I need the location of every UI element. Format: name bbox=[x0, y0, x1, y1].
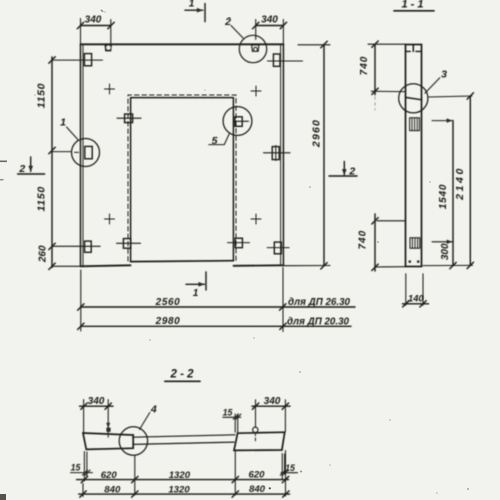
section mark 1 bottom bbox=[205, 272, 207, 290]
detail circle 5 bbox=[223, 107, 252, 136]
svg-text:для ДП 20.30: для ДП 20.30 bbox=[287, 316, 350, 327]
bottom row 2 dimension line 840/1320/840 bbox=[79, 493, 290, 495]
svg-text:для ДП 26.30: для ДП 26.30 bbox=[288, 297, 351, 308]
cross mark top-left bbox=[105, 84, 115, 94]
left dimension chain 1150/1150/260 bbox=[51, 57, 53, 268]
svg-text:1: 1 bbox=[60, 117, 66, 129]
bottom dimension 2980 with note line bbox=[81, 325, 351, 327]
svg-text:1: 1 bbox=[189, 0, 195, 10]
svg-text:1150: 1150 bbox=[36, 83, 48, 108]
weld plate P2 left middle (in detail 1) bbox=[85, 146, 92, 158]
svg-text:2980: 2980 bbox=[155, 316, 181, 327]
panel bottom edge left jamb bbox=[81, 265, 131, 266]
lifting loop left (elevation): dark recess with hole bbox=[105, 45, 112, 52]
joint line inside detail 3 bbox=[406, 98, 422, 100]
bar top loop lines bbox=[406, 50, 422, 52]
weld plate P6 right bottom bbox=[274, 242, 281, 254]
weld plate P3 left bottom bbox=[85, 241, 92, 252]
svg-text:5: 5 bbox=[212, 135, 218, 147]
svg-text:740: 740 bbox=[357, 230, 368, 250]
svg-text:340: 340 bbox=[85, 15, 102, 26]
dimension 340 bottom-left bbox=[80, 405, 114, 407]
svg-text:140: 140 bbox=[408, 294, 424, 304]
svg-text:300: 300 bbox=[440, 243, 451, 260]
dimension 15 mid (web offset) bbox=[234, 414, 236, 432]
section 1-1 bar outline bbox=[406, 45, 422, 267]
svg-text:2: 2 bbox=[348, 166, 355, 178]
svg-text:620: 620 bbox=[101, 470, 118, 481]
svg-text:15: 15 bbox=[285, 463, 295, 473]
dimension 140 bbox=[405, 274, 407, 306]
weld plate P1 left top bbox=[84, 54, 91, 66]
svg-text:340: 340 bbox=[264, 396, 281, 407]
svg-text:2 - 2: 2 - 2 bbox=[169, 369, 194, 381]
detail circle 1 bbox=[72, 139, 100, 167]
svg-text:1320: 1320 bbox=[169, 470, 191, 481]
bottom row 1 dimension line 620/1320/620 bbox=[77, 479, 289, 481]
dimension 1540 bbox=[452, 121, 454, 242]
section mark 2 right bbox=[343, 162, 345, 175]
dimension 300 bbox=[452, 242, 454, 266]
panel top edge bbox=[81, 43, 284, 45]
svg-text:15: 15 bbox=[223, 408, 233, 418]
dimension 2140 bbox=[469, 96, 471, 265]
web strip bbox=[133, 435, 235, 437]
svg-text:1 - 1: 1 - 1 bbox=[401, 0, 423, 11]
embedded plate B (hatched) bbox=[410, 238, 420, 248]
detail circle 4 bbox=[119, 427, 147, 455]
weld plate P10 opening right bottom bbox=[235, 238, 242, 248]
opening hidden outline (dashed) bbox=[128, 95, 236, 261]
weld plate P5 right middle bbox=[272, 147, 279, 160]
weld plate P7 opening left top bbox=[125, 114, 133, 123]
svg-text:15: 15 bbox=[71, 463, 81, 473]
dimension 740 top bbox=[374, 44, 376, 94]
left lifting loop (plan, filled square) bbox=[106, 428, 110, 432]
embedded plate A (hatched) bbox=[410, 118, 420, 131]
weld plate P9 opening left bottom bbox=[123, 239, 130, 249]
svg-text:840: 840 bbox=[249, 484, 266, 495]
svg-text:260: 260 bbox=[38, 245, 49, 263]
dimension extension at detail 3 level bbox=[371, 90, 405, 92]
detail circle 3 bbox=[399, 84, 428, 113]
lifting loop right (elevation, in detail circle 2) bbox=[252, 45, 259, 51]
cross mark bottom-right bbox=[251, 214, 261, 224]
right dimension 2960 bbox=[323, 45, 325, 266]
svg-text:1150: 1150 bbox=[36, 186, 48, 211]
right slab bbox=[234, 432, 285, 450]
dimension 740 bottom bbox=[374, 214, 376, 271]
weld plate P4 right top bbox=[273, 54, 280, 66]
svg-text:1540: 1540 bbox=[438, 184, 449, 209]
dimension 340 top-left bbox=[81, 25, 112, 27]
svg-text:4: 4 bbox=[150, 403, 157, 415]
svg-text:1320: 1320 bbox=[168, 485, 190, 496]
extension lines for bottom rows bbox=[82, 484, 84, 497]
cross mark top-right bbox=[251, 86, 261, 96]
section 2-2 title underline bbox=[165, 380, 200, 382]
svg-text:2: 2 bbox=[18, 163, 25, 175]
opening inner outline (solid) bbox=[131, 98, 234, 262]
detail circle 2 bbox=[239, 35, 266, 62]
svg-text:2140: 2140 bbox=[454, 166, 466, 201]
left slab bbox=[83, 433, 133, 449]
dimension 15 bottom-left bbox=[83, 452, 85, 482]
right lifting loop (plan, ring) bbox=[253, 427, 258, 432]
panel right edge (double line) bbox=[280, 45, 282, 266]
dimension 15 bottom-right bbox=[281, 454, 283, 481]
svg-text:2960: 2960 bbox=[311, 119, 323, 148]
cross mark bottom-left bbox=[105, 214, 115, 224]
svg-text:740: 740 bbox=[359, 56, 370, 76]
svg-text:620: 620 bbox=[248, 470, 265, 481]
panel bottom edge right jamb bbox=[234, 264, 284, 267]
svg-text:1: 1 bbox=[193, 288, 199, 299]
rebar dots bbox=[409, 260, 412, 263]
weld plate P8 opening right top (in detail 5) bbox=[235, 117, 242, 127]
dimension 340 bottom-right bbox=[252, 405, 290, 407]
svg-text:340: 340 bbox=[261, 15, 278, 26]
svg-text:840: 840 bbox=[104, 485, 121, 496]
panel bottom sill under opening bbox=[131, 260, 234, 263]
dimension 340 top-right bbox=[256, 25, 284, 27]
svg-text:340: 340 bbox=[88, 396, 105, 407]
svg-text:3: 3 bbox=[441, 69, 447, 81]
section mark 2 left bbox=[30, 157, 32, 172]
section mark 1 top bbox=[204, 4, 206, 22]
panel left edge (double line) bbox=[80, 45, 82, 267]
section 1-1 title underline bbox=[394, 10, 434, 12]
svg-text:2560: 2560 bbox=[155, 297, 181, 308]
bottom dimension 2560 with note line bbox=[81, 306, 355, 308]
